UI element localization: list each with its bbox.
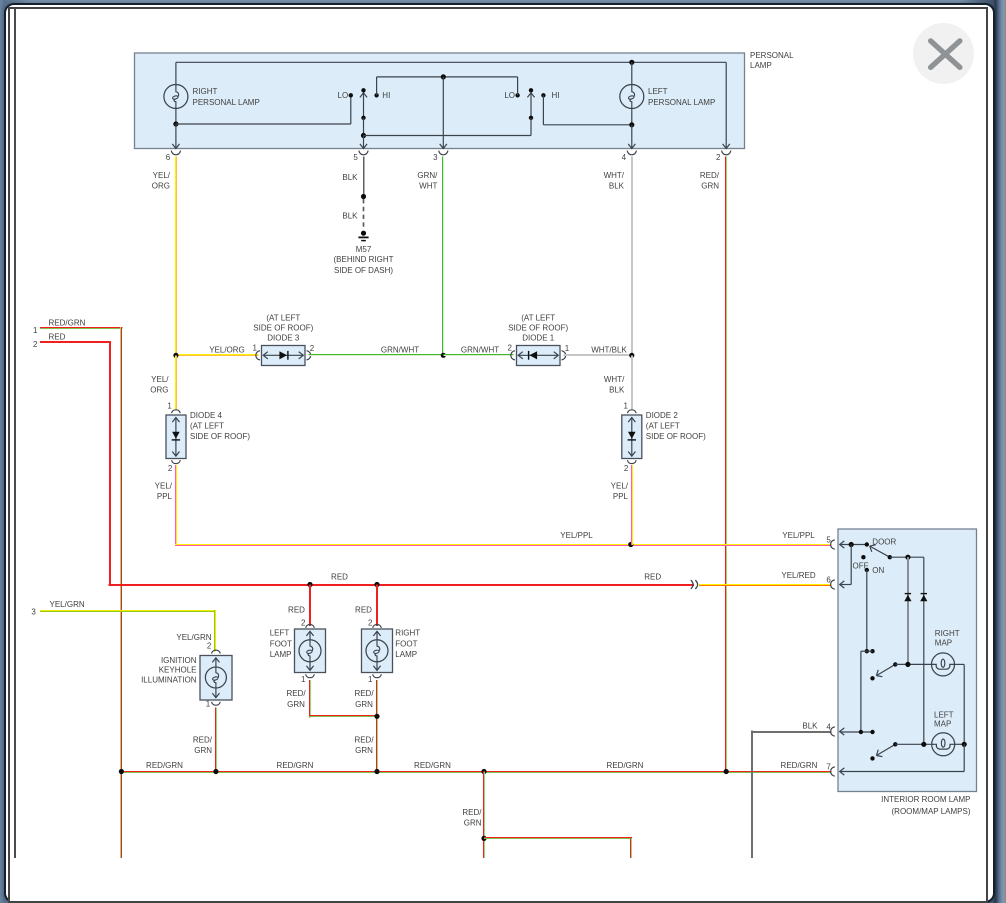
svg-text:RED/: RED/ (286, 689, 306, 698)
svg-text:(AT LEFT: (AT LEFT (521, 314, 555, 323)
svg-text:SIDE OF ROOF): SIDE OF ROOF) (190, 432, 250, 441)
node: YEL/ORG bus junction (173, 353, 178, 358)
wire: right map to right link (955, 663, 965, 665)
svg-text:FOOT: FOOT (270, 639, 292, 648)
node: pin4 at ON branch (859, 730, 863, 734)
label PERSONAL LAMP (box name) (750, 51, 794, 70)
pin 5 of personal lamp connector (353, 151, 368, 163)
label LEFT MAP (934, 711, 954, 729)
svg-text:YEL/: YEL/ (153, 171, 171, 180)
svg-text:2: 2 (508, 344, 513, 353)
node: rail C at S1 (361, 133, 366, 138)
svg-text:WHT: WHT (419, 182, 437, 191)
diode interior left (904, 595, 911, 601)
label WHT/BLK pin4 (604, 171, 625, 191)
diode interior right (920, 595, 927, 601)
label YEL/ORG pin6 (152, 171, 171, 191)
node: bus at feed 1 (119, 769, 124, 774)
svg-text:DIODE 2: DIODE 2 (646, 411, 679, 420)
svg-text:RED/GRN: RED/GRN (781, 761, 818, 770)
wire RED/GRN lower branch right and down (484, 837, 632, 858)
svg-text:MAP: MAP (935, 639, 952, 648)
svg-text:1: 1 (253, 344, 258, 353)
sheet stacked left edge line (14, 8, 16, 858)
svg-text:PPL: PPL (613, 492, 629, 501)
pin 4 of interior lamp (826, 722, 844, 736)
svg-text:PERSONAL LAMP: PERSONAL LAMP (193, 98, 260, 107)
node: bus at pin2 wire (724, 769, 729, 774)
label RIGHT MAP (935, 629, 960, 648)
label RED/ GRN ignition (193, 735, 213, 755)
pin 4 of personal lamp connector (622, 151, 637, 163)
switch S2 pole and arm (527, 93, 534, 118)
svg-text:ILLUMINATION: ILLUMINATION (141, 675, 197, 684)
svg-text:1: 1 (33, 326, 38, 335)
svg-text:YEL/: YEL/ (155, 481, 173, 490)
svg-text:GRN/WHT: GRN/WHT (461, 346, 499, 355)
node: lower branch split (481, 836, 486, 841)
svg-text:GRN: GRN (355, 746, 373, 755)
svg-text:PERSONAL: PERSONAL (750, 51, 794, 60)
wire: left lamp drop to pin 4 (631, 125, 633, 149)
lamp right foot symbol (373, 631, 380, 640)
pin 7 of interior lamp (826, 762, 844, 776)
svg-text:GRN: GRN (355, 700, 373, 709)
svg-text:(BEHIND RIGHT: (BEHIND RIGHT (334, 255, 394, 264)
svg-text:LEFT: LEFT (648, 87, 668, 96)
wire YEL/GRN down to ignition lamp (214, 610, 216, 652)
svg-text:2: 2 (168, 464, 173, 473)
svg-text:YEL/: YEL/ (151, 375, 169, 384)
svg-text:ORG: ORG (152, 182, 170, 191)
pin 1 of D4 (167, 401, 180, 413)
svg-text:PPL: PPL (157, 492, 173, 501)
svg-text:RED: RED (288, 606, 305, 615)
wire: right lamp top stub (175, 62, 177, 84)
svg-text:DIODE 4: DIODE 4 (190, 411, 223, 420)
label RED/ GRN lower branch (462, 808, 482, 828)
node: map link junction (962, 742, 967, 747)
svg-text:KEYHOLE: KEYHOLE (159, 666, 197, 675)
label LEFT PERSONAL LAMP (648, 87, 715, 107)
svg-text:RED/GRN: RED/GRN (146, 761, 183, 770)
svg-text:1: 1 (368, 675, 373, 684)
wire: left diode branch (gray) (907, 557, 909, 664)
node: RED bus to left foot lamp (307, 582, 312, 587)
lamp box: IGNITION KEYHOLE ILLUMINATION (200, 656, 232, 701)
svg-text:2: 2 (310, 344, 315, 353)
label RED/GRN pin2 (700, 171, 720, 191)
svg-text:RED/: RED/ (354, 735, 374, 744)
svg-text:RIGHT: RIGHT (935, 629, 960, 638)
label DIODE 4 (AT LEFT SIDE OF ROOF) (190, 411, 250, 441)
label YEL/ORG above diode4 (150, 375, 169, 395)
wire GRN/WHT center node to diode 1 (443, 354, 513, 356)
svg-text:1: 1 (565, 344, 570, 353)
svg-text:HI: HI (552, 91, 560, 100)
svg-text:LAMP: LAMP (270, 650, 292, 659)
wire: pin7 rail up to map link (840, 744, 965, 771)
wire YEL/RED to pin 6 of interior lamp (699, 584, 832, 586)
pin 6 of personal lamp connector (166, 151, 181, 163)
caption INTERIOR ROOM LAMP (ROOM/MAP LAMPS) (881, 795, 971, 816)
svg-text:RED/: RED/ (462, 808, 482, 817)
node: RED bus to right foot lamp (374, 582, 379, 587)
svg-text:DIODE 1: DIODE 1 (522, 333, 555, 342)
wire: rail C drop to pin 5 (363, 136, 365, 149)
svg-text:SIDE OF ROOF): SIDE OF ROOF) (646, 432, 706, 441)
diode D2 component box (622, 415, 642, 459)
wire: link down to left map (963, 664, 965, 744)
wire: right lamp drop to pin 6 (175, 124, 177, 149)
lamp ignition keyhole symbol (212, 658, 219, 667)
node: ON branch pair (865, 649, 875, 653)
svg-text:RED/GRN: RED/GRN (607, 761, 644, 770)
svg-text:M57: M57 (356, 245, 372, 254)
svg-text:BLK: BLK (609, 386, 625, 395)
svg-text:WHT/: WHT/ (604, 171, 625, 180)
node: foot lamps junction (374, 714, 379, 719)
diode D4 component box (166, 415, 186, 459)
wire: left map to link node (955, 743, 965, 745)
wire YEL/PPL from diode 4 down and right (bus) (175, 465, 832, 546)
svg-text:4: 4 (622, 153, 627, 162)
svg-text:RED/: RED/ (354, 689, 374, 698)
svg-text:DIODE 3: DIODE 3 (267, 333, 300, 342)
node: bus at foot lamps (374, 769, 379, 774)
wire: rail A drop to pin 2 (725, 62, 727, 149)
svg-text:RED: RED (49, 333, 66, 342)
wire YEL/ORG horizontal to diode 3 (176, 354, 259, 356)
svg-text:RED/GRN: RED/GRN (277, 761, 314, 770)
svg-text:2: 2 (624, 464, 629, 473)
svg-text:LO: LO (338, 91, 349, 100)
svg-text:RED: RED (355, 606, 372, 615)
pin 2 of right foot lamp (368, 619, 381, 628)
wire: right diode branch (923, 557, 925, 744)
wire: LO2 up to rail B (517, 77, 519, 95)
wire BLK dashed to ground (363, 199, 365, 230)
svg-text:ON: ON (872, 566, 884, 575)
wire: room rail to right map lamp (895, 663, 931, 665)
wire: left lamp bottom (631, 109, 633, 125)
switch S2 pole dots (529, 88, 533, 120)
node: room rail at left diode branch (905, 662, 910, 667)
wire: HI1 up to rail B (376, 77, 378, 95)
svg-text:2: 2 (716, 153, 721, 162)
svg-text:LEFT: LEFT (934, 711, 954, 720)
label YEL/ PPL below diode2 (611, 481, 629, 501)
wire GRN/WHT diode3 to center node (309, 354, 444, 356)
wire RED/GRN lower branch down (483, 772, 485, 859)
lamp box: LEFT FOOT LAMP (295, 629, 326, 673)
svg-text:BLK: BLK (342, 173, 358, 182)
wire: pin4 rail (840, 731, 873, 733)
label M57 (BEHIND RIGHT SIDE OF DASH) (334, 245, 394, 275)
diode D1 symbol (518, 351, 558, 360)
wire WHT/BLK from pin 4 down to bus (631, 157, 633, 357)
svg-text:GRN: GRN (287, 700, 305, 709)
wire YEL/PPL from diode 2 down to bus (631, 465, 633, 545)
ground M57 (358, 231, 368, 241)
svg-text:YEL/RED: YEL/RED (781, 571, 815, 580)
lamp LEFT MAP (932, 733, 955, 756)
wire: pin5 to DOOR contact (840, 544, 867, 546)
node: room switch pivot (893, 662, 897, 666)
svg-text:ORG: ORG (150, 386, 168, 395)
wire: map rail to left map lamp (895, 743, 931, 745)
switch OFF contact (861, 555, 865, 559)
connector box: INTERIOR ROOM LAMP (ROOM/MAP LAMPS) (838, 529, 977, 792)
pin 1 of right foot lamp (368, 674, 381, 684)
wire: ON contact down (866, 570, 868, 651)
diode D3 symbol (263, 351, 303, 360)
node: switch pivot (888, 555, 892, 559)
svg-text:2: 2 (207, 642, 212, 651)
svg-text:(AT LEFT: (AT LEFT (646, 421, 680, 430)
pin 1 of D2 (624, 401, 637, 413)
wire RED/GRN ignition to bus (215, 708, 217, 773)
svg-text:BLK: BLK (802, 721, 818, 730)
svg-text:YEL/ORG: YEL/ORG (209, 346, 245, 355)
label IGNITION KEYHOLE ILLUMINATION (141, 656, 197, 685)
pin 2 of left foot lamp (301, 619, 314, 628)
svg-text:LAMP: LAMP (750, 61, 772, 70)
node: left lamp junction (629, 122, 634, 127)
wire RED/GRN from pin 2 down to bottom bus (725, 157, 727, 773)
svg-text:3: 3 (31, 607, 36, 616)
wire YEL/ORG from pin 6 down to bus (175, 157, 177, 357)
wire: rail B (377, 76, 518, 78)
svg-text:5: 5 (353, 153, 358, 162)
wire: left lamp top stub (631, 62, 633, 84)
diode D3 component box (262, 346, 306, 366)
wire: HI2 link to left lamp (543, 95, 631, 125)
lamp: RIGHT PERSONAL LAMP (164, 85, 188, 109)
pin 2 of D4 (168, 460, 180, 473)
wire YEL/ORG down to diode 4 (175, 355, 177, 410)
svg-text:YEL/PPL: YEL/PPL (782, 531, 815, 540)
svg-text:LEFT: LEFT (270, 629, 290, 638)
lamp RIGHT MAP (932, 653, 955, 676)
lamp box: RIGHT FOOT LAMP (362, 629, 393, 673)
svg-text:IGNITION: IGNITION (161, 656, 197, 665)
node: WHT/BLK junction (629, 353, 634, 358)
svg-text:SIDE OF ROOF): SIDE OF ROOF) (253, 324, 313, 333)
pin 2 of ignition keyhole illumination (207, 642, 220, 654)
wire: rail C (364, 135, 532, 137)
wire RED drop to right foot lamp (376, 585, 378, 626)
wire: ON branch jog (861, 651, 873, 732)
svg-text:LO: LO (504, 91, 515, 100)
switch arm (interior main) (870, 545, 890, 557)
svg-text:LAMP: LAMP (395, 650, 417, 659)
svg-text:RED/GRN: RED/GRN (414, 761, 451, 770)
svg-text:INTERIOR ROOM LAMP: INTERIOR ROOM LAMP (881, 795, 970, 804)
pin 1 of ignition keyhole illumination (206, 699, 220, 708)
pin 3 of personal lamp connector (433, 151, 448, 163)
connector box: PERSONAL LAMP (135, 53, 745, 149)
node: bus at lower branch (481, 769, 486, 774)
svg-text:YEL/GRN: YEL/GRN (50, 600, 85, 609)
wire 2 RED feed from left (40, 341, 111, 586)
diode D2 symbol (628, 417, 636, 456)
svg-text:DOOR: DOOR (872, 537, 896, 546)
svg-text:SIDE OF ROOF): SIDE OF ROOF) (508, 324, 568, 333)
node: YEL/PPL junction with diode2 branch (628, 542, 633, 547)
svg-text:2: 2 (33, 340, 38, 349)
svg-text:(AT LEFT: (AT LEFT (190, 421, 224, 430)
svg-text:2: 2 (301, 619, 306, 628)
wire GRN/WHT from pin 3 down to bus (442, 157, 444, 357)
switch S2 LO contact (515, 93, 519, 97)
svg-text:GRN: GRN (701, 182, 719, 191)
svg-text:1: 1 (206, 699, 211, 708)
node: map rail at right diode branch (921, 742, 926, 747)
svg-text:1: 1 (167, 401, 172, 410)
pin 6 of interior lamp (826, 575, 844, 589)
node: BLK splice (361, 194, 366, 199)
svg-text:RED/: RED/ (193, 735, 213, 744)
wire: pivot rail to diode branches (890, 556, 924, 558)
svg-text:YEL/GRN: YEL/GRN (176, 633, 211, 642)
lamp left foot symbol (306, 631, 313, 640)
wire WHT/BLK down to diode 2 (631, 355, 633, 410)
svg-text:SIDE OF DASH): SIDE OF DASH) (334, 266, 393, 275)
svg-text:(ROOM/MAP LAMPS): (ROOM/MAP LAMPS) (892, 807, 971, 816)
wire 3 YEL/GRN feed from left (40, 610, 216, 612)
wire: S1 pole to rail C (363, 118, 365, 136)
svg-text:BLK: BLK (609, 182, 625, 191)
pin 5 of interior lamp (826, 535, 844, 549)
switch S1 pole dots (361, 88, 365, 120)
switch room contact (870, 676, 874, 680)
wire: S2 pole to rail C (530, 118, 532, 136)
wire break symbol on RED bus (691, 580, 698, 589)
diode D1 component box (517, 346, 561, 366)
node: GRN/WHT junction (441, 353, 446, 358)
pin 2 of D1 (508, 344, 515, 360)
svg-text:GRN: GRN (194, 746, 212, 755)
switch S1 HI contact (374, 93, 378, 97)
svg-text:1: 1 (624, 401, 629, 410)
switch map contact (870, 756, 874, 760)
svg-text:WHT/: WHT/ (604, 375, 625, 384)
label RIGHT FOOT LAMP (395, 629, 420, 660)
label YEL/ PPL below diode4 (155, 481, 173, 501)
pin 2 of personal lamp connector (716, 151, 731, 163)
svg-text:3: 3 (433, 153, 438, 162)
node: bus at ignition lamp (213, 769, 218, 774)
node: rail A tap for left lamp (629, 60, 634, 65)
wire: rail A inside box (lamp feed) (176, 61, 726, 63)
pin 1 of D1 (562, 344, 570, 360)
label RED/ GRN left foot (286, 689, 306, 709)
pin 2 of D3 (307, 344, 315, 360)
close button (913, 23, 974, 84)
node: map switch pivot (893, 742, 897, 746)
svg-text:BLK: BLK (342, 212, 358, 221)
svg-text:RED: RED (331, 573, 348, 582)
pin 1 of D3 (253, 344, 260, 360)
label WHT/BLK above diode2 (604, 375, 625, 395)
svg-text:GRN: GRN (464, 818, 482, 827)
svg-text:MAP: MAP (934, 719, 951, 728)
switch S1 pole and arm (360, 93, 367, 118)
svg-text:RIGHT: RIGHT (395, 629, 420, 638)
wire BLK from pin 5 (363, 157, 365, 197)
wire: link to LO1 contact (176, 95, 351, 124)
switch DOOR contact (865, 542, 869, 546)
wire BLK to pin 4 of interior lamp (751, 731, 832, 859)
wire RED/GRN bottom bus (121, 771, 831, 773)
wire 1 RED/GRN feed from left (40, 327, 123, 858)
svg-text:RED/GRN: RED/GRN (49, 319, 86, 328)
wire RED/GRN left foot to junction (309, 680, 377, 717)
svg-text:2: 2 (368, 619, 373, 628)
svg-text:(AT LEFT: (AT LEFT (266, 314, 300, 323)
label DIODE 2 (AT LEFT SIDE OF ROOF) (646, 411, 706, 441)
node: left diode branch tap (905, 555, 910, 560)
label RED/ GRN right foot lower (354, 735, 374, 755)
svg-text:GRN/: GRN/ (417, 171, 438, 180)
wire RED/GRN right foot down to bus (376, 680, 378, 773)
wire RED drop to left foot lamp (309, 585, 311, 626)
close X icon (931, 41, 960, 68)
switch S1 LO contact (349, 93, 353, 97)
wire: pin6 jog up to pin5 node (840, 545, 852, 585)
wire RED bus horizontal (109, 584, 695, 586)
node: right lamp junction (173, 121, 178, 126)
switch map arm (876, 744, 895, 756)
diode D4 symbol (172, 417, 180, 456)
wire: right lamp bottom to node (175, 109, 177, 125)
svg-text:FOOT: FOOT (395, 639, 417, 648)
svg-text:PERSONAL LAMP: PERSONAL LAMP (648, 98, 715, 107)
svg-text:RIGHT: RIGHT (193, 87, 218, 96)
node: pin4 rail end (870, 730, 874, 734)
svg-text:RED: RED (644, 573, 661, 582)
label for DIODE 3 (AT LEFT SIDE OF ROOF) (253, 314, 313, 343)
svg-text:HI: HI (382, 91, 390, 100)
svg-text:YEL/PPL: YEL/PPL (560, 531, 593, 540)
label RIGHT PERSONAL LAMP (193, 87, 260, 107)
label LEFT FOOT LAMP (270, 629, 292, 660)
svg-text:RED/: RED/ (700, 171, 720, 180)
label GRN/WHT pin3 (417, 171, 438, 191)
pin 2 of D2 (624, 460, 636, 473)
svg-text:GRN/WHT: GRN/WHT (381, 346, 419, 355)
label RED/ GRN right foot upper (354, 689, 374, 709)
switch ON contact (865, 568, 869, 572)
switch room arm (876, 664, 895, 676)
label for DIODE 1 (AT LEFT SIDE OF ROOF) (508, 314, 568, 343)
switch S2 HI contact (541, 93, 545, 97)
pin 1 of left foot lamp (301, 674, 314, 684)
wire WHT/BLK diode1 to pin4 wire (564, 354, 632, 356)
svg-text:6: 6 (166, 153, 171, 162)
svg-text:WHT/BLK: WHT/BLK (591, 346, 627, 355)
lamp: LEFT PERSONAL LAMP (620, 85, 644, 109)
wire: rail B drop to pin 3 (442, 77, 444, 149)
node: rail B tap to pin 3 (441, 74, 446, 79)
svg-text:1: 1 (301, 675, 306, 684)
node: pin5/pin6 tie (849, 542, 854, 547)
svg-text:YEL/: YEL/ (611, 481, 629, 490)
